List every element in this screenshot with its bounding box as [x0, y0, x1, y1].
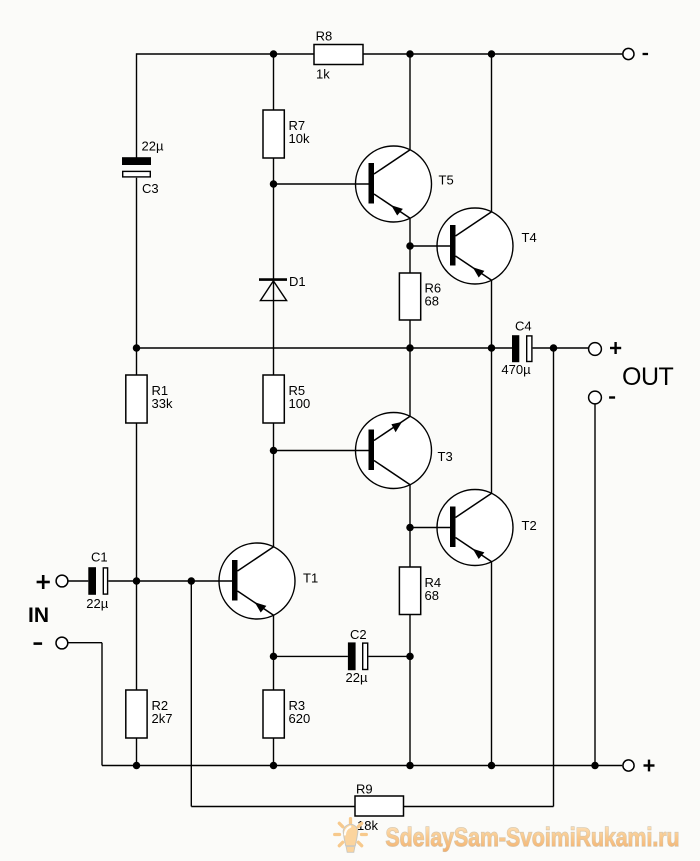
- svg-text:68: 68: [425, 588, 439, 603]
- svg-text:R9: R9: [356, 782, 373, 797]
- svg-text:10k: 10k: [289, 131, 310, 146]
- svg-text:T2: T2: [522, 518, 537, 533]
- svg-text:22µ: 22µ: [142, 139, 164, 154]
- svg-text:C2: C2: [350, 627, 367, 642]
- svg-text:22µ: 22µ: [86, 596, 108, 611]
- svg-text:T5: T5: [439, 173, 454, 188]
- svg-text:1k: 1k: [316, 67, 330, 82]
- svg-text:C3: C3: [142, 181, 159, 196]
- svg-text:T4: T4: [522, 230, 537, 245]
- svg-text:2k7: 2k7: [152, 711, 173, 726]
- svg-text:33k: 33k: [152, 396, 173, 411]
- svg-text:100: 100: [289, 396, 311, 411]
- svg-text:OUT: OUT: [622, 363, 674, 391]
- svg-text:22µ: 22µ: [346, 670, 368, 685]
- svg-text:68: 68: [425, 294, 439, 309]
- svg-text:C1: C1: [91, 550, 108, 565]
- svg-text:620: 620: [289, 711, 311, 726]
- svg-text:470µ: 470µ: [501, 362, 531, 377]
- svg-text:C4: C4: [515, 319, 532, 334]
- svg-text:IN: IN: [28, 604, 49, 627]
- svg-text:SdelaySam-SvoimiRukami.ru: SdelaySam-SvoimiRukami.ru: [386, 822, 680, 852]
- svg-text:D1: D1: [289, 274, 306, 289]
- svg-text:T1: T1: [303, 571, 318, 586]
- svg-text:T3: T3: [438, 449, 453, 464]
- svg-text:R8: R8: [316, 29, 333, 44]
